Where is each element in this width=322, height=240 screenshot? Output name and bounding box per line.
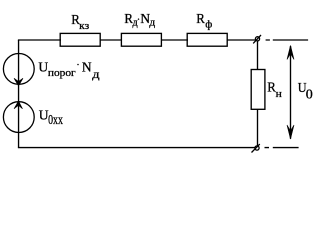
svg-text:R: R <box>196 12 205 27</box>
svg-text:0: 0 <box>306 87 313 102</box>
svg-text:н: н <box>276 88 282 100</box>
svg-text:д: д <box>92 67 99 81</box>
svg-text:0хх: 0хх <box>48 113 63 128</box>
svg-text:кз: кз <box>79 20 89 32</box>
svg-text:д: д <box>149 17 155 29</box>
svg-text:порог: порог <box>48 67 76 79</box>
svg-text:U: U <box>38 60 48 75</box>
svg-text:д: д <box>133 17 139 29</box>
svg-text:N: N <box>82 60 92 75</box>
svg-text:ф: ф <box>205 19 212 31</box>
